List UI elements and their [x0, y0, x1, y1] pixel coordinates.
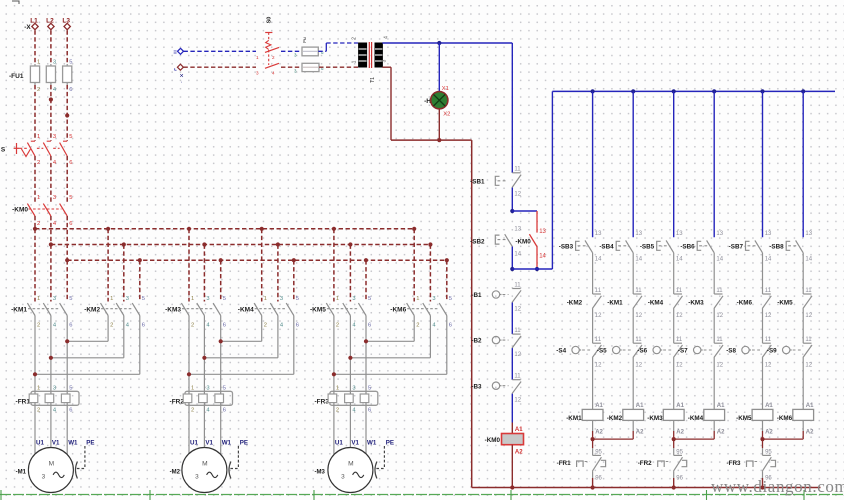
node seal-in top [510, 209, 514, 213]
svg-text:3: 3 [352, 385, 355, 391]
svg-text:-B3: -B3 [471, 383, 482, 390]
svg-text:3: 3 [280, 296, 283, 302]
node bus2 KM1 [49, 242, 53, 246]
svg-text:-KM4: -KM4 [648, 299, 664, 306]
bottom control bus (dark red) [472, 487, 821, 489]
thermal relay FR2 body [185, 391, 233, 405]
svg-text:12: 12 [595, 362, 602, 368]
node on L2 wire [49, 97, 53, 101]
svg-text:-KM6: -KM6 [737, 299, 753, 306]
svg-text:12: 12 [765, 362, 772, 368]
wires KM6 outputs down [413, 316, 415, 342]
wire S0 to fuse (dark red) [281, 66, 302, 68]
wire SB2 to node bottom [511, 247, 513, 269]
svg-text:3: 3 [53, 134, 56, 140]
button SB4 actuator [616, 241, 620, 250]
switch B2 actuator [492, 336, 499, 343]
lamp H1 wire top (blue) [438, 43, 440, 92]
svg-text:13: 13 [635, 231, 642, 237]
svg-text:12: 12 [635, 362, 642, 368]
svg-text:5: 5 [223, 385, 226, 391]
svg-text:3: 3 [53, 385, 56, 391]
svg-text:11: 11 [514, 328, 521, 334]
svg-text:6: 6 [296, 323, 299, 329]
wire top bus to SB8 [802, 91, 804, 237]
wires KM1 outputs down [34, 316, 36, 392]
wire fuse to transformer (blue) [318, 50, 326, 52]
svg-text:6: 6 [142, 323, 145, 329]
svg-text:14: 14 [514, 251, 521, 257]
motor M1 PE wire [84, 446, 86, 469]
svg-text:M: M [49, 460, 55, 467]
svg-text:A2: A2 [636, 430, 644, 436]
crossover wire KM1.2 to KM2.6 [35, 373, 140, 375]
svg-text:-KM3: -KM3 [647, 415, 663, 422]
crossover wire KM5.6 to KM6.2 [366, 340, 414, 342]
svg-text:5: 5 [223, 296, 226, 302]
svg-text:2: 2 [110, 323, 113, 329]
wire [762, 358, 764, 410]
svg-text:-SB4: -SB4 [599, 243, 614, 250]
svg-text:A1: A1 [515, 427, 523, 433]
svg-text:S: S [1, 147, 6, 154]
svg-text:A1: A1 [595, 403, 603, 409]
wire bus3 to KM6 pole [446, 260, 448, 301]
svg-text:5: 5 [296, 296, 299, 302]
transformer T1 [359, 43, 367, 67]
breaker QS mechanism [16, 143, 18, 154]
svg-text:A2: A2 [595, 430, 603, 436]
svg-text:-M1: -M1 [16, 469, 27, 475]
wire B3 to coil KM0 [511, 394, 513, 423]
svg-text:-FR1: -FR1 [16, 398, 31, 405]
svg-text:-SB2: -SB2 [470, 238, 485, 245]
switch S0 pole 2 [265, 63, 279, 68]
wire [592, 253, 594, 294]
pair junction wire KM1/KM2 [593, 438, 634, 440]
svg-text:4: 4 [384, 36, 390, 39]
svg-text:-KM1: -KM1 [566, 415, 582, 422]
wire bus3 to KM3 pole [220, 260, 222, 301]
lamp H1 wire bottom (dark red) [438, 109, 440, 140]
svg-text:-KM1: -KM1 [11, 306, 27, 313]
button SB6 actuator [697, 241, 701, 250]
svg-text:11: 11 [765, 337, 772, 343]
svg-text:A1: A1 [717, 403, 725, 409]
fuse FU1 pole 2 [50, 64, 52, 85]
svg-text:13: 13 [765, 231, 772, 237]
svg-text:11: 11 [805, 337, 812, 343]
svg-text:12: 12 [635, 313, 642, 319]
svg-text:5: 5 [69, 60, 72, 66]
wire [713, 358, 715, 410]
svg-text:3: 3 [382, 59, 388, 62]
wire terminal to switch S0 (blue) [184, 50, 257, 52]
wire fuse to breaker pole 3 [66, 85, 68, 141]
switch B1 actuator [492, 291, 499, 298]
wire top bus to SB5 [673, 91, 675, 237]
wire coil to pair junction [802, 420, 804, 431]
wire [762, 309, 764, 344]
svg-text:96: 96 [595, 476, 602, 482]
node top bus [591, 89, 595, 93]
wire transformer secondary 3 (dark red) [382, 66, 391, 68]
svg-text:3: 3 [341, 474, 345, 481]
frame tick [510, 490, 512, 500]
wire bus3 to KM1 pole [66, 260, 68, 301]
svg-text:3: 3 [294, 52, 297, 57]
svg-text:1: 1 [336, 385, 339, 391]
node bus2 KM2 [122, 242, 126, 246]
svg-text:12: 12 [595, 313, 602, 319]
svg-text:PE: PE [86, 439, 94, 446]
breaker QS trip symbol [22, 149, 31, 157]
wire transformer secondary 4 (blue) [382, 42, 512, 44]
svg-text:-KM0: -KM0 [12, 206, 28, 213]
svg-text:2: 2 [336, 408, 339, 414]
wire bus2 to KM3 pole [203, 245, 205, 302]
svg-text:-M3: -M3 [315, 469, 326, 475]
svg-text:11: 11 [514, 282, 521, 288]
svg-text:4: 4 [432, 323, 436, 329]
wire bus1 to KM6 pole [413, 229, 415, 302]
wire bus3 to KM2 pole [139, 260, 141, 301]
svg-text:12: 12 [716, 313, 723, 319]
wire coil to pair junction [713, 420, 715, 431]
svg-text:13: 13 [595, 231, 602, 237]
svg-text:4: 4 [280, 323, 284, 329]
wire secondary to left control rail [391, 139, 472, 141]
node bus1 KM5 [332, 227, 336, 231]
wires KM3 outputs down [188, 316, 190, 392]
svg-text:W1: W1 [222, 439, 232, 446]
button SB7 actuator [746, 241, 750, 250]
svg-text:5: 5 [449, 296, 452, 302]
svg-text:6: 6 [368, 323, 371, 329]
svg-text:3: 3 [256, 71, 259, 76]
svg-text:6: 6 [449, 323, 452, 329]
svg-text:U1: U1 [190, 439, 198, 446]
svg-text:-KM3: -KM3 [165, 306, 181, 313]
node bus3 KM3 [219, 258, 223, 262]
svg-text:-SB8: -SB8 [769, 243, 784, 250]
svg-text:3: 3 [195, 474, 199, 481]
svg-text:11: 11 [805, 288, 812, 294]
corner crop mark [12, 1, 19, 4]
svg-text:1: 1 [336, 296, 339, 302]
button SB5 actuator [657, 241, 661, 250]
wire [632, 358, 634, 410]
wire bus2 to KM2 pole [123, 245, 125, 302]
node top bus [760, 89, 764, 93]
svg-text:1: 1 [191, 296, 194, 302]
svg-text:PE: PE [240, 439, 248, 446]
svg-text:⌞: ⌞ [174, 66, 177, 72]
svg-text:1: 1 [37, 60, 40, 66]
svg-text:1: 1 [416, 296, 419, 302]
svg-text:4: 4 [352, 323, 356, 329]
wire KM0 pole1 to bus1 [34, 216, 36, 229]
svg-text:95: 95 [765, 450, 772, 456]
wires KM2 outputs down [107, 316, 109, 342]
svg-text:1: 1 [191, 385, 194, 391]
wire coil to pair junction [762, 420, 764, 431]
svg-text:2: 2 [37, 87, 40, 93]
svg-text:-FR3: -FR3 [314, 398, 329, 405]
svg-text:-KM6: -KM6 [390, 306, 406, 313]
svg-text:4: 4 [352, 408, 356, 414]
svg-text:A1: A1 [765, 403, 773, 409]
svg-text:6: 6 [69, 221, 72, 227]
node bus2 KM6 [428, 242, 432, 246]
svg-text:4: 4 [53, 87, 57, 93]
svg-text:13: 13 [514, 227, 521, 233]
svg-text:≡: ≡ [173, 50, 177, 56]
wire bus2 to KM1 pole [50, 245, 52, 302]
frame tick [313, 490, 315, 500]
svg-text:A2: A2 [765, 430, 773, 436]
svg-text:-B1: -B1 [471, 292, 482, 299]
svg-text:1: 1 [256, 55, 259, 60]
motor M3 PE wire [383, 446, 385, 469]
control top bus (blue) [552, 90, 835, 92]
svg-text:S0: S0 [267, 17, 273, 24]
wire bus2 to KM5 pole [349, 245, 351, 302]
wire bus2 to KM6 pole [429, 245, 431, 302]
svg-text:A2: A2 [676, 430, 684, 436]
wires FR3 to motor M3 [333, 405, 335, 454]
svg-text:-KM2: -KM2 [84, 306, 100, 313]
svg-text:11: 11 [595, 337, 602, 343]
wire FR3 to bottom bus [762, 471, 764, 478]
svg-text:-KM4: -KM4 [688, 415, 704, 422]
svg-text:2: 2 [272, 55, 275, 60]
thermal relay FR3 body [330, 391, 378, 405]
svg-text:13: 13 [676, 231, 683, 237]
svg-text:-S4: -S4 [556, 348, 566, 355]
wire bus1 to KM4 pole [261, 229, 263, 302]
svg-text:3: 3 [53, 296, 56, 302]
svg-text:3: 3 [126, 296, 129, 302]
svg-text:4: 4 [126, 323, 130, 329]
wire bus1 to KM2 pole [107, 229, 109, 302]
svg-text:-S5: -S5 [597, 348, 607, 355]
svg-text:14: 14 [716, 256, 723, 262]
svg-text:-FR2: -FR2 [638, 460, 652, 467]
wire breaker to KM0 pole 1 [34, 156, 36, 202]
svg-text:A1: A1 [676, 403, 684, 409]
wire [802, 309, 804, 344]
svg-text:14: 14 [595, 256, 602, 262]
watermark [711, 477, 844, 497]
wire [592, 358, 594, 410]
svg-text:12: 12 [514, 192, 521, 198]
wire top bus to SB4 [632, 91, 634, 237]
wire coil KM0 to bottom bus [511, 445, 513, 488]
svg-text:11: 11 [716, 288, 723, 294]
svg-text:11: 11 [716, 337, 723, 343]
node top bus [672, 89, 676, 93]
svg-text:12: 12 [805, 362, 812, 368]
svg-text:3: 3 [206, 385, 209, 391]
svg-text:6: 6 [223, 323, 226, 329]
svg-text:-SB3: -SB3 [559, 243, 574, 250]
wires FR2 to motor M2 [188, 405, 190, 454]
svg-text:14: 14 [635, 256, 642, 262]
wire [511, 303, 513, 335]
thermal contact FR3 NC [762, 439, 764, 448]
thermal contact FR1 NC [592, 439, 594, 448]
svg-text:11: 11 [676, 337, 683, 343]
node lamp bottom [437, 138, 441, 142]
wire bus1 to KM5 pole [333, 229, 335, 302]
svg-text:X2: X2 [443, 112, 450, 118]
svg-text:A1: A1 [806, 403, 814, 409]
svg-text:M: M [202, 460, 208, 467]
node seal-in bottom [510, 267, 514, 271]
wire fuse to transformer (dark red) [319, 66, 359, 68]
svg-text:1: 1 [37, 385, 40, 391]
svg-text:3: 3 [206, 296, 209, 302]
svg-text:4: 4 [53, 408, 57, 414]
frame tick [706, 490, 708, 500]
svg-text:12: 12 [514, 307, 521, 313]
wire [713, 309, 715, 344]
wire bus3 to KM5 pole [365, 260, 367, 301]
svg-text:6: 6 [368, 408, 371, 414]
pair junction wire KM3/KM4 [674, 438, 715, 440]
crossover wire KM1.6 to KM2.2 [67, 340, 108, 342]
svg-text:2: 2 [37, 160, 40, 166]
svg-text:-KM5: -KM5 [777, 299, 793, 306]
svg-text:5: 5 [69, 385, 72, 391]
svg-text:4: 4 [206, 408, 210, 414]
svg-text:4: 4 [53, 323, 57, 329]
wire [762, 253, 764, 294]
button SB8 actuator [786, 241, 790, 250]
svg-text:2: 2 [191, 408, 194, 414]
svg-text:2: 2 [37, 408, 40, 414]
svg-text:-SB6: -SB6 [680, 243, 695, 250]
svg-text:5: 5 [69, 134, 72, 140]
svg-text:T1: T1 [370, 77, 376, 83]
svg-text:5: 5 [69, 195, 72, 201]
wire coil to pair junction [673, 420, 675, 431]
svg-text:3: 3 [53, 60, 56, 66]
wire [511, 348, 513, 380]
svg-text:6: 6 [69, 160, 72, 166]
svg-text:1: 1 [352, 60, 358, 63]
svg-text:3: 3 [294, 68, 297, 73]
wire L2 terminal to fuse [50, 30, 52, 64]
wire coil to pair junction [632, 420, 634, 431]
wire fuse to breaker pole 1 [34, 85, 36, 141]
svg-text:2: 2 [336, 323, 339, 329]
wires KM4 outputs down [261, 316, 263, 342]
wire KM0 pole2 to bus2 [50, 216, 52, 245]
motor M2 PE wire [237, 446, 239, 469]
svg-text:-KM6: -KM6 [777, 415, 793, 422]
svg-text:-FU1: -FU1 [9, 73, 24, 80]
svg-text:-S7: -S7 [678, 348, 688, 355]
svg-text:-M2: -M2 [170, 469, 181, 475]
svg-text:1: 1 [37, 134, 40, 140]
wire [632, 309, 634, 344]
svg-text:96: 96 [676, 476, 683, 482]
node top bus [712, 89, 716, 93]
svg-text:2: 2 [416, 323, 419, 329]
svg-text:95: 95 [595, 450, 602, 456]
wire [802, 253, 804, 294]
svg-text:2: 2 [37, 323, 40, 329]
bus L1 [35, 228, 414, 230]
node bus3 KM6 [445, 258, 449, 262]
crossover wire KM1.4 to KM2.4 [51, 357, 124, 359]
bus L2 [51, 244, 431, 246]
svg-text:4: 4 [272, 71, 275, 76]
svg-text:-KM0: -KM0 [515, 238, 531, 245]
left control rail (dark red) [471, 140, 473, 487]
stop button SB1 actuator [495, 176, 499, 185]
node bus2 KM5 [348, 242, 352, 246]
start button SB2 actuator [495, 235, 499, 244]
wire L3 terminal to fuse [66, 30, 68, 64]
svg-text:1: 1 [264, 296, 267, 302]
svg-text:A2: A2 [806, 430, 814, 436]
wire [592, 309, 594, 344]
wire [673, 309, 675, 344]
svg-text:-FR1: -FR1 [557, 460, 571, 467]
svg-text:-SB7: -SB7 [729, 243, 744, 250]
svg-text:A1: A1 [636, 403, 644, 409]
svg-text:-KM0: -KM0 [485, 437, 501, 444]
svg-text:14: 14 [676, 256, 683, 262]
PE frame line (green) [0, 494, 844, 496]
wire coil to pair junction [592, 420, 594, 431]
svg-text:-KM4: -KM4 [238, 306, 254, 313]
svg-text:3: 3 [352, 296, 355, 302]
svg-text:11: 11 [595, 288, 602, 294]
svg-text:11: 11 [514, 167, 521, 173]
svg-text:13: 13 [716, 231, 723, 237]
wire [802, 358, 804, 410]
svg-text:A2: A2 [515, 449, 523, 455]
svg-text:-FR3: -FR3 [727, 460, 741, 467]
svg-text:-FR2: -FR2 [170, 398, 185, 405]
wire FR1 to bottom bus [592, 471, 594, 478]
svg-text:12: 12 [676, 313, 683, 319]
svg-text:2: 2 [264, 323, 267, 329]
svg-text:-B2: -B2 [471, 338, 482, 345]
wire FR2 to bottom bus [673, 471, 675, 478]
node top bus [801, 89, 805, 93]
svg-text:W1: W1 [68, 439, 78, 446]
wire [673, 253, 675, 294]
svg-text:-S9: -S9 [767, 348, 777, 355]
crossover wire KM3.6 to KM4.2 [221, 340, 262, 342]
frame tick [149, 490, 151, 500]
node bus1 KM3 [187, 227, 191, 231]
wire SB1 to node [511, 188, 513, 211]
wire [673, 358, 675, 410]
svg-text:6: 6 [69, 408, 72, 414]
svg-text:-S8: -S8 [726, 348, 736, 355]
svg-text:11: 11 [635, 337, 642, 343]
wire breaker to KM0 pole 3 [66, 156, 68, 202]
node bus3 KM1 [65, 258, 69, 262]
frame tick [0, 490, 2, 500]
node bus1 KM2 [106, 227, 110, 231]
